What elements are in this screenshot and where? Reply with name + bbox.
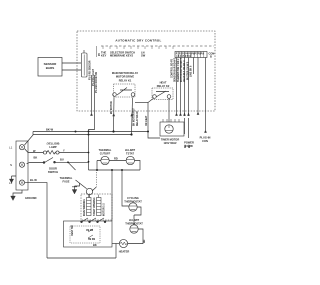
mech link dashed [96, 172, 98, 187]
svg-text:BU: BU [60, 158, 64, 162]
wire N out [27, 163, 44, 164]
svg-text:HEAT: HEAT [160, 81, 167, 85]
svg-text:RD: RD [114, 157, 118, 161]
relay K2 coil [156, 91, 169, 97]
terminal block TB [16, 141, 28, 190]
ground G2 stem [13, 190, 22, 196]
pin arrow 2 [179, 113, 181, 116]
svg-text:P1-1 BK DOOR SW: P1-1 BK DOOR SW [96, 71, 98, 93]
terminal L2 screw [21, 181, 24, 184]
heater body [119, 239, 127, 247]
bus BK horizontal [33, 131, 148, 133]
ground G1 [12, 176, 17, 179]
wire manifold y170 [89, 169, 141, 171]
connector CON-B header [175, 52, 207, 58]
door switch blade [45, 158, 54, 163]
svg-text:RELAY K2: RELAY K2 [157, 84, 170, 88]
thermostat TS1 detail [101, 160, 109, 164]
motor dashed box [81, 194, 112, 220]
svg-text:SW: SW [141, 54, 146, 58]
connector P3 tab [83, 50, 85, 53]
svg-text:THERMISTOR Y-BK 2: THERMISTOR Y-BK 2 [178, 58, 180, 82]
ground G2 arrow [11, 196, 16, 201]
svg-text:LINE BK 6: LINE BK 6 [191, 65, 193, 77]
svg-text:RELAY K1: RELAY K1 [119, 78, 132, 82]
thermostat TS2 detail [126, 160, 134, 164]
svg-text:1M 2M: 1M 2M [86, 230, 93, 232]
wire lamp feed [25, 149, 44, 153]
motor start winding [97, 198, 102, 216]
drum lamp filament [47, 151, 56, 155]
svg-text:GROUND: GROUND [25, 196, 37, 200]
terminal N screw [21, 163, 24, 166]
switch assembly contacts [88, 229, 93, 238]
wire header drop 3 [184, 58, 186, 135]
cycling thermostat stubs [134, 207, 141, 215]
wire sensor to connector 2 [62, 69, 81, 71]
wire chain left [122, 170, 129, 206]
pin mark K1 right [131, 114, 133, 117]
svg-text:BK: BK [93, 243, 97, 247]
svg-text:CYCLING: CYCLING [127, 196, 139, 200]
svg-text:BL-W: BL-W [30, 178, 37, 182]
hi-limit thermostat stubs [128, 215, 143, 244]
svg-text:BU MOTOR: BU MOTOR [111, 101, 113, 114]
svg-text:START WINDING: START WINDING [93, 197, 96, 216]
svg-text:P1P2P3P4P5P6P7P8P9: P1P2P3P4P5P6P7P8P9 [176, 52, 205, 55]
svg-text:BK-W: BK-W [46, 128, 54, 132]
wire K1 right drop [132, 98, 133, 135]
pin mark drop 1 [90, 113, 92, 116]
wire board drop 2 [89, 75, 95, 170]
svg-text:MOTOR RLY BU-BK 3: MOTOR RLY BU-BK 3 [181, 58, 183, 82]
svg-text:MAIN MOTOR RELAY: MAIN MOTOR RELAY [112, 71, 138, 75]
relay K1 dashed box [114, 84, 136, 97]
wire TS2 right [135, 161, 140, 171]
wire box to heater [112, 243, 119, 245]
svg-text:MOTOR DRIVE: MOTOR DRIVE [116, 75, 135, 79]
switch assembly box [64, 221, 113, 247]
relay K2 terminal right [167, 95, 171, 99]
sensor box S1 [38, 58, 62, 77]
wire K2 right [168, 98, 170, 122]
svg-text:HEAT RLY OR-BK 4: HEAT RLY OR-BK 4 [183, 60, 186, 82]
wire L2 out [25, 183, 47, 258]
svg-text:CON: CON [202, 139, 208, 143]
svg-text:BARS: BARS [46, 66, 55, 70]
winding top stubs [89, 195, 99, 198]
relay K2 terminal left [153, 95, 157, 99]
svg-text:POWER: POWER [184, 141, 194, 145]
ground G1 arrow [9, 179, 13, 183]
svg-text:SENSOR BAR RD-W 1: SENSOR BAR RD-W 1 [174, 57, 177, 82]
svg-text:TIMER MOTOR: TIMER MOTOR [161, 138, 180, 142]
svg-text:CUTOFF: CUTOFF [100, 152, 111, 156]
drum lamp terminal right [56, 151, 59, 154]
svg-text:HI-LIMIT: HI-LIMIT [125, 148, 136, 152]
svg-text:THERMAL: THERMAL [60, 176, 73, 180]
wire board drop 1 [91, 75, 93, 113]
wire lamp to board [59, 152, 88, 154]
svg-text:THERMOSTAT: THERMOSTAT [125, 222, 143, 226]
svg-text:N: N [10, 163, 12, 167]
junction dots [67, 130, 149, 171]
thermal fuse link [89, 195, 91, 198]
svg-text:MAIN WINDING: MAIN WINDING [83, 199, 86, 216]
wire header drop 5 short [193, 58, 195, 75]
svg-text:FUSE: FUSE [63, 180, 70, 184]
relay K1 coil [117, 88, 132, 96]
wire L1 diagonal [25, 132, 34, 146]
header tick labels [96, 46, 98, 57]
thermostat TS1 left stub [97, 161, 101, 171]
svg-text:CORD: CORD [185, 144, 193, 148]
wire TS1 to TS2 [109, 160, 126, 162]
thermal fuse blade [76, 180, 87, 189]
svg-text:HEATER: HEATER [119, 250, 130, 254]
ground G3 stem [72, 183, 80, 190]
svg-text:BK: BK [34, 156, 38, 160]
switch assembly inner dashed [70, 226, 100, 243]
wire K1 left drop [113, 98, 116, 132]
wire header drop 2 [180, 58, 182, 114]
svg-text:SWITCH: SWITCH [48, 170, 58, 174]
centrifugal switch terminals [81, 221, 83, 223]
thermostat TS1 body [101, 156, 109, 164]
wire header drop 1 [176, 58, 178, 114]
wire header drop 4 [188, 58, 190, 139]
pin mark K1 left [113, 114, 115, 117]
svg-text:Y: Y [63, 149, 65, 153]
drum lamp terminal left [43, 151, 46, 154]
timer motor pins [163, 119, 179, 122]
terminal L2 [19, 180, 24, 185]
relay K1 terminal left [113, 93, 117, 97]
door switch contact [54, 161, 56, 163]
hi-limit thermostat detail [130, 228, 138, 232]
motor main winding [87, 198, 92, 216]
svg-text:PLUG-IN: PLUG-IN [200, 136, 211, 140]
svg-text:RELAY BK-W: RELAY BK-W [136, 111, 139, 126]
bus W horizontal [33, 134, 132, 136]
timer motor box M2 [160, 122, 184, 136]
door switch pivot [43, 162, 45, 164]
svg-text:THERMOSTAT: THERMOSTAT [124, 200, 142, 204]
mech link blade [92, 187, 96, 191]
svg-text:123456789: 123456789 [176, 55, 192, 58]
svg-text:MOTOR 1-2: MOTOR 1-2 [104, 203, 106, 216]
terminal L1 [19, 145, 24, 150]
wire door sw branch [68, 162, 76, 170]
svg-text:P1-2 WH LIGHT: P1-2 WH LIGHT [93, 68, 95, 86]
svg-text:AUTOMATIC DRY CONTROL: AUTOMATIC DRY CONTROL [115, 39, 161, 43]
pin arrow 3 [183, 113, 185, 116]
svg-text:KEY: KEY [101, 54, 107, 58]
ground G3 arrow [72, 190, 77, 195]
svg-text:120V 60HZ: 120V 60HZ [163, 141, 177, 145]
terminal N [19, 162, 24, 167]
svg-text:P1-3 RD SENSOR: P1-3 RD SENSOR [90, 60, 92, 80]
pin arrow 6 [204, 130, 206, 133]
pin arrow 5 [197, 112, 199, 115]
svg-text:HI-LIMIT: HI-LIMIT [129, 218, 140, 222]
wire sensor to connector [62, 62, 81, 64]
node header dashed row [101, 45, 214, 47]
wire header drop 6 [197, 58, 199, 113]
terminal L1 screw [21, 146, 24, 149]
pin arrow 4 [187, 113, 189, 116]
relay K1 terminal right [131, 93, 135, 97]
timer motor detail [165, 125, 173, 131]
thermal fuse terminal [86, 188, 92, 194]
svg-text:RD: RD [144, 239, 146, 243]
relay K2 dashed box [152, 88, 173, 100]
svg-text:LAMP: LAMP [49, 145, 57, 149]
svg-text:BK MOTOR RLY: BK MOTOR RLY [134, 108, 136, 126]
console dashed box [77, 31, 215, 111]
wire K2 left tee [135, 102, 148, 104]
timer motor circle [165, 125, 173, 133]
wire motor right edge [111, 170, 113, 221]
hi-limit thermostat body [130, 225, 138, 233]
heater element [120, 242, 127, 245]
svg-text:(YELLOW): (YELLOW) [47, 142, 60, 146]
thermostat TS2 body [126, 156, 134, 164]
svg-text:L2: L2 [9, 181, 13, 185]
wire bottom bus [47, 257, 116, 259]
heater bus riser [115, 244, 117, 259]
svg-text:DOOR: DOOR [49, 167, 57, 171]
connector CON-B pins [178, 52, 204, 58]
svg-text:5M 6M: 5M 6M [88, 239, 95, 241]
cycling thermostat body [129, 203, 137, 211]
svg-text:THERMAL: THERMAL [99, 148, 112, 152]
wire door sw right [55, 161, 88, 163]
svg-text:L1: L1 [9, 146, 13, 150]
svg-text:OR HEAT: OR HEAT [145, 115, 148, 126]
svg-text:BUZZER GY-W 5: BUZZER GY-W 5 [187, 61, 189, 80]
svg-text:MEMBRANE KEYS: MEMBRANE KEYS [110, 54, 133, 58]
svg-text:B: B [210, 55, 212, 59]
centrifugal switch contacts [82, 218, 104, 222]
svg-text:CONTROL BD P2: CONTROL BD P2 [171, 58, 173, 78]
wire header drop 7 [205, 58, 207, 131]
wire K2 left [148, 98, 160, 138]
cycling thermostat detail [129, 206, 137, 210]
svg-text:TSTAT: TSTAT [126, 152, 134, 156]
svg-text:CENT SW: CENT SW [72, 224, 74, 236]
connector P3 bar [82, 53, 88, 77]
pin arrow 1 [175, 113, 177, 116]
